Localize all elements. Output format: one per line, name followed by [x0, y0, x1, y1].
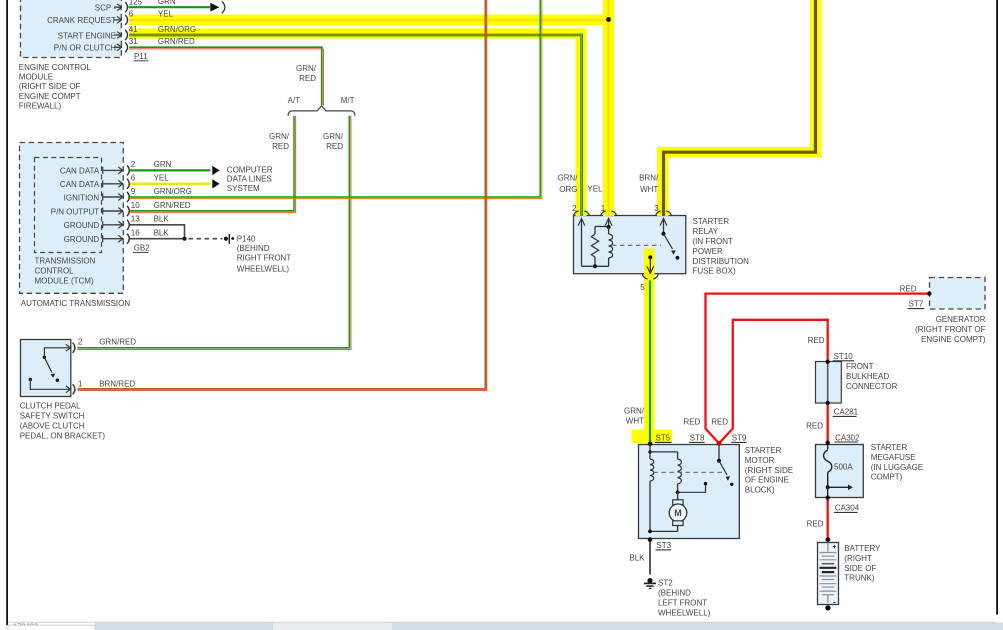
svg-text:BULKHEAD: BULKHEAD — [846, 372, 889, 381]
wire YEL crank request row — [129, 19, 609, 21]
svg-text:START ENGINE: START ENGINE — [58, 31, 116, 40]
relay coil bottom wire — [582, 265, 609, 267]
svg-text:GB2: GB2 — [134, 244, 151, 253]
node CA304 dot — [826, 495, 830, 499]
ECM pin 31 P/N OR CLUTCH — [114, 46, 121, 48]
clutch pin 2 — [66, 344, 71, 351]
TCM pin 13 GROUND — [102, 221, 104, 228]
svg-text:CRANK REQUEST: CRANK REQUEST — [47, 16, 116, 25]
svg-text:(RIGHT SIDE OF: (RIGHT SIDE OF — [19, 82, 81, 91]
svg-text:1: 1 — [601, 204, 606, 213]
starter megafuse box — [816, 445, 864, 498]
starter relay box — [574, 216, 686, 274]
front bulkhead connector box — [816, 362, 842, 404]
svg-text:FUSE BOX): FUSE BOX) — [693, 267, 736, 276]
TCM pin 2 CAN DATA — [102, 167, 104, 174]
wire BLK TCM pin 16 — [130, 238, 185, 240]
connector P140 symbol — [228, 234, 230, 244]
svg-text:+: + — [832, 544, 836, 551]
relay coil top wire — [595, 226, 609, 228]
wire GRN TCM pin 2 row — [130, 169, 211, 171]
scrollbar track — [8, 621, 997, 624]
svg-text:ST9: ST9 — [732, 433, 747, 442]
ECM pin 6 CRANK REQUEST — [114, 19, 121, 21]
wire YEL TCM pin 6 row — [130, 183, 211, 185]
scrollbar lighter segment — [273, 623, 392, 630]
svg-text:WHEELWELL): WHEELWELL) — [658, 608, 711, 617]
svg-text:GRN/: GRN/ — [296, 64, 317, 73]
svg-text:RED: RED — [900, 285, 917, 294]
wire GRN SCP row — [129, 6, 211, 8]
starter motor box — [639, 445, 740, 539]
svg-text:(IN FRONT: (IN FRONT — [693, 237, 734, 246]
arrow SCP data line — [210, 3, 219, 12]
svg-text:GRN/RED: GRN/RED — [154, 201, 191, 210]
svg-text:CONNECTOR: CONNECTOR — [846, 382, 898, 391]
svg-text:WHT: WHT — [626, 416, 644, 425]
svg-text:WHT: WHT — [640, 185, 658, 194]
highlight GRN/WHT wire vertical — [644, 249, 655, 430]
highlight BRN/WHT wire vertical left — [657, 147, 669, 216]
TCM inner box — [35, 158, 102, 253]
svg-text:DISTRIBUTION: DISTRIBUTION — [693, 257, 750, 266]
svg-text:GRN/: GRN/ — [323, 132, 344, 141]
svg-text:BLK: BLK — [154, 229, 170, 238]
svg-text:SAFETY SWITCH: SAFETY SWITCH — [20, 412, 85, 421]
front bulkhead connector pass-through — [827, 362, 829, 403]
highlight GRN/ORG wire vertical — [576, 28, 587, 216]
battery terminal dot bottom — [825, 605, 830, 610]
node CA302 dot — [826, 441, 830, 445]
wire BRN/WHT from top right to relay pin 3 — [664, 0, 816, 216]
junction dot YEL wire — [606, 17, 611, 22]
svg-text:CAN DATA: CAN DATA — [60, 167, 100, 176]
svg-text:RELAY: RELAY — [693, 227, 719, 236]
relay resistor — [594, 227, 596, 235]
svg-text:P/N OUTPUT: P/N OUTPUT — [51, 207, 100, 216]
TCM pin 9 IGNITION — [102, 194, 104, 201]
svg-text:GRN/: GRN/ — [624, 407, 645, 416]
svg-text:5: 5 — [640, 283, 645, 292]
svg-text:A/T: A/T — [288, 96, 301, 105]
svg-text:GRN/RED: GRN/RED — [158, 37, 195, 46]
svg-text:YEL: YEL — [587, 184, 603, 193]
svg-text:FRONT: FRONT — [846, 362, 874, 371]
svg-text:125: 125 — [129, 0, 143, 7]
svg-text:GRN/: GRN/ — [558, 173, 579, 182]
TCM pin 16 GROUND — [102, 235, 104, 242]
arrow computer data lines 1 — [212, 166, 219, 176]
clutch switch contact from pin 2 — [44, 348, 70, 357]
clutch pin 1 — [66, 386, 71, 393]
svg-text:AUTOMATIC TRANSMISSION: AUTOMATIC TRANSMISSION — [21, 299, 131, 308]
clutch switch contact to pin 1 — [29, 378, 32, 381]
starter ST3 junction — [648, 537, 653, 542]
svg-text:GRN/: GRN/ — [269, 132, 290, 141]
highlight YEL wire vertical — [603, 0, 614, 216]
starter motor bottom wire — [650, 530, 678, 532]
wire RED starter to generator ST7 — [706, 294, 930, 444]
relay pin 1 terminal — [601, 211, 606, 216]
svg-text:RED: RED — [807, 519, 824, 528]
starter dashed actuation link — [654, 471, 723, 473]
wire GRN/RED vertical to A/T-M/T split — [321, 47, 323, 105]
svg-text:BLOCK): BLOCK) — [745, 486, 775, 495]
svg-text:MODULE (TCM): MODULE (TCM) — [35, 276, 94, 285]
relay pin 3 terminal — [656, 211, 661, 216]
svg-text:RED: RED — [806, 422, 823, 431]
svg-text:STARTER: STARTER — [871, 443, 908, 452]
svg-text:M/T: M/T — [341, 96, 355, 105]
svg-text:-: - — [833, 597, 836, 606]
svg-text:CONTROL: CONTROL — [35, 267, 75, 276]
relay pin 5 terminal — [642, 274, 647, 279]
svg-text:GROUND: GROUND — [64, 235, 100, 244]
svg-text:31: 31 — [129, 37, 138, 46]
svg-text:ENGINE COMPT): ENGINE COMPT) — [921, 335, 986, 344]
starter switch — [717, 441, 722, 446]
diagram frame left border — [6, 0, 8, 625]
svg-text:YEL: YEL — [154, 174, 170, 183]
svg-text:(BEHIND: (BEHIND — [658, 589, 691, 598]
svg-text:(IN LUGGAGE: (IN LUGGAGE — [871, 463, 923, 472]
svg-text:GRN: GRN — [154, 160, 172, 169]
svg-text:BLK: BLK — [154, 215, 170, 224]
svg-text:6: 6 — [129, 10, 134, 19]
svg-text:ST10: ST10 — [834, 352, 854, 361]
wire RED CA281 to CA302 — [827, 403, 829, 443]
svg-text:LEFT FRONT: LEFT FRONT — [658, 599, 707, 608]
wire BLK dashed to P140 — [189, 238, 223, 240]
svg-text:MODULE: MODULE — [19, 73, 53, 82]
svg-text:CA302: CA302 — [835, 433, 860, 442]
svg-text:16: 16 — [131, 229, 140, 238]
wire GRN/ORG vertical at x540 — [539, 0, 541, 197]
ECM module box — [21, 0, 122, 58]
svg-text:(ABOVE CLUTCH: (ABOVE CLUTCH — [20, 422, 85, 431]
wire BRN/RED clutch pin 1 row — [78, 388, 487, 390]
wire YEL vertical to relay pin 1 — [607, 0, 609, 216]
svg-text:PEDAL, ON BRACKET): PEDAL, ON BRACKET) — [20, 432, 106, 441]
svg-text:TRANSMISSION: TRANSMISSION — [35, 257, 96, 266]
svg-text:RED: RED — [272, 142, 289, 151]
svg-text:CA281: CA281 — [834, 407, 859, 416]
svg-text:CA304: CA304 — [835, 503, 860, 512]
svg-text:ST5: ST5 — [656, 433, 671, 442]
starter solenoid coil 1 — [650, 459, 654, 481]
svg-text:(BEHIND: (BEHIND — [237, 244, 270, 253]
highlight ST5 label block — [632, 430, 673, 443]
svg-text:SCP -: SCP - — [95, 4, 117, 13]
svg-text:(RIGHT: (RIGHT — [844, 554, 872, 563]
svg-text:DATA LINES: DATA LINES — [227, 175, 272, 184]
A/T M/T split brace — [288, 106, 355, 116]
bracket SCP continuation — [222, 1, 225, 13]
zoom indicator box — [8, 625, 95, 630]
battery plates — [827, 542, 829, 551]
ECM pin 41 START ENGINE — [114, 34, 121, 36]
battery box — [818, 543, 839, 605]
svg-text:COMPUTER: COMPUTER — [227, 166, 273, 175]
svg-text:2: 2 — [131, 160, 136, 169]
svg-text:MEGAFUSE: MEGAFUSE — [871, 453, 916, 462]
svg-text:OF ENGINE: OF ENGINE — [745, 476, 789, 485]
svg-text:2: 2 — [78, 338, 83, 347]
svg-text:GRN/RED: GRN/RED — [99, 338, 136, 347]
wire GRN/RED A/T branch vertical — [293, 116, 295, 211]
svg-text:BATTERY: BATTERY — [844, 544, 881, 553]
svg-text:3: 3 — [654, 204, 659, 213]
svg-text:GRN/ORG: GRN/ORG — [158, 25, 196, 34]
starter ST5 junction — [648, 442, 653, 447]
svg-text:ST8: ST8 — [690, 433, 705, 442]
svg-text:FIREWALL): FIREWALL) — [19, 101, 62, 110]
highlight BRN/WHT wire horizontal — [657, 147, 822, 158]
svg-text:ST3: ST3 — [656, 541, 671, 550]
wire GRN/ORG TCM pin 9 row — [130, 196, 541, 198]
svg-text:IGNITION: IGNITION — [64, 193, 100, 202]
svg-text:WHEELWELL): WHEELWELL) — [237, 265, 290, 274]
relay switch — [662, 232, 666, 236]
TCM pin 10 P/N OUTPUT — [102, 208, 104, 215]
wire BLK starter ST3 to ground — [649, 540, 651, 575]
wire GRN/RED ECM pin 31 row — [129, 46, 323, 48]
svg-text:GRN: GRN — [158, 0, 176, 6]
svg-text:1: 1 — [78, 379, 83, 388]
wire GRN/ORG start engine row — [129, 34, 583, 37]
clutch pedal safety switch box — [21, 340, 71, 397]
starter contact stub — [676, 490, 680, 494]
megafuse element 500A — [827, 444, 829, 449]
starter solenoid coil 2 — [678, 459, 682, 484]
svg-text:RED: RED — [326, 142, 343, 151]
wire RED CA304 to battery — [827, 498, 829, 540]
svg-text:RED: RED — [299, 74, 316, 83]
wire GRN/WHT relay pin 5 to starter ST5 — [649, 281, 651, 444]
svg-text:13: 13 — [131, 215, 140, 224]
clutch switch arm — [44, 357, 52, 372]
svg-text:CAN DATA: CAN DATA — [60, 180, 100, 189]
svg-text:RED: RED — [808, 336, 825, 345]
relay actuation dashed link — [612, 244, 661, 246]
starter left rail — [649, 444, 651, 459]
svg-text:POWER: POWER — [693, 247, 723, 256]
ECM pin 125 SCP - — [114, 6, 121, 8]
svg-text:BRN/RED: BRN/RED — [99, 379, 135, 388]
generator box — [930, 278, 986, 310]
wire GRN/RED TCM pin 10 row — [130, 210, 295, 212]
svg-text:ENGINE COMPT: ENGINE COMPT — [19, 92, 81, 101]
dot BLK dashed end — [224, 237, 228, 241]
svg-text:GENERATOR: GENERATOR — [936, 315, 986, 324]
TCM pin 6 CAN DATA — [102, 180, 104, 187]
svg-text:P/N OR CLUTCH: P/N OR CLUTCH — [54, 44, 116, 53]
wire RED starter to front bulkhead ST10 — [719, 320, 828, 444]
node ST7 dot — [927, 291, 931, 295]
svg-text:GROUND: GROUND — [64, 221, 100, 230]
relay pin 5 stub — [648, 255, 652, 259]
svg-text:COMPT): COMPT) — [871, 473, 903, 482]
svg-text:BLK: BLK — [629, 554, 645, 563]
svg-text:P140: P140 — [237, 234, 256, 243]
svg-text:ORG: ORG — [559, 185, 577, 194]
highlight YEL wire row — [129, 15, 613, 26]
starter motor M — [677, 492, 679, 500]
TCM outer box — [20, 143, 124, 294]
svg-text:STARTER: STARTER — [745, 446, 782, 455]
diagram frame right border — [996, 0, 998, 615]
svg-text:(RIGHT FRONT OF: (RIGHT FRONT OF — [915, 325, 985, 334]
svg-text:6: 6 — [131, 174, 136, 183]
svg-text:9: 9 — [131, 187, 136, 196]
svg-text:YEL: YEL — [158, 10, 174, 19]
svg-text:SIDE OF: SIDE OF — [844, 564, 876, 573]
starter branch to coil 2 — [650, 451, 678, 453]
svg-text:RIGHT FRONT: RIGHT FRONT — [237, 254, 292, 263]
highlight BRN/WHT wire vertical right — [810, 0, 822, 158]
svg-text:RED: RED — [684, 417, 701, 426]
wire BLK TCM pin 13 — [130, 225, 185, 239]
svg-text:SYSTEM: SYSTEM — [227, 184, 260, 193]
wire GRN/RED M/T branch vertical — [348, 116, 350, 348]
svg-text:M: M — [674, 508, 682, 518]
svg-text:RED: RED — [711, 417, 728, 426]
ground ST2 symbol — [647, 578, 652, 583]
wire BRN/RED vertical at x485 — [484, 0, 486, 389]
svg-text:GRN/ORG: GRN/ORG — [154, 187, 192, 196]
svg-text:10: 10 — [131, 201, 140, 210]
wire GRN/ORG vertical to relay pin 2 — [580, 34, 583, 216]
svg-text:TRUNK): TRUNK) — [844, 574, 875, 583]
svg-text:CLUTCH PEDAL: CLUTCH PEDAL — [20, 402, 81, 411]
wire GRN/RED clutch pin 2 row — [78, 347, 351, 349]
svg-text:(RIGHT SIDE: (RIGHT SIDE — [745, 466, 793, 475]
relay pin 2 terminal — [574, 211, 579, 216]
svg-text:STARTER: STARTER — [693, 217, 730, 226]
battery terminal dot top — [826, 537, 831, 542]
svg-text:ST2: ST2 — [658, 579, 673, 588]
svg-text:P11: P11 — [134, 52, 148, 61]
svg-text:ENGINE CONTROL: ENGINE CONTROL — [19, 63, 92, 72]
svg-text:2: 2 — [572, 204, 577, 213]
svg-text:500A: 500A — [834, 463, 853, 472]
svg-text:BRN/: BRN/ — [639, 173, 659, 182]
relay coil — [608, 227, 610, 234]
svg-text:41: 41 — [129, 25, 138, 34]
highlight GRN/ORG wire row — [129, 28, 586, 38]
svg-text:MOTOR: MOTOR — [745, 456, 775, 465]
junction dot BLK pins 13-16 — [182, 237, 186, 241]
svg-text:ST7: ST7 — [909, 300, 924, 309]
arrow computer data lines 2 — [212, 179, 219, 189]
